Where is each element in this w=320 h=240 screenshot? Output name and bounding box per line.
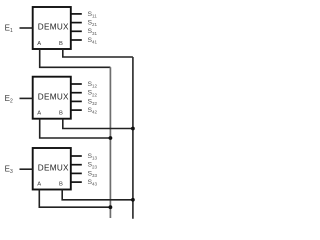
svg-text:B: B: [59, 111, 63, 117]
wire U3 pin B to bus B: [62, 190, 133, 200]
junction A2: [109, 136, 113, 140]
wire U3 output stub S43: [71, 181, 82, 183]
junction B2: [131, 127, 135, 131]
wire E2 input: [20, 97, 33, 99]
svg-text:DEMUX: DEMUX: [38, 164, 69, 173]
wire U2 output stub S42: [71, 109, 82, 111]
demux U1: [33, 7, 71, 49]
wire bus B vertical: [132, 57, 134, 219]
svg-text:B: B: [59, 181, 63, 187]
junction B3: [131, 198, 135, 202]
junction A3: [109, 205, 113, 209]
svg-text:DEMUX: DEMUX: [38, 92, 69, 101]
svg-text:A: A: [37, 181, 41, 187]
svg-text:DEMUX: DEMUX: [38, 23, 69, 32]
demux U2: [33, 77, 71, 119]
demux U3: [33, 148, 71, 190]
wire U1 output stub S11: [71, 13, 82, 15]
wire U3 output stub S23: [71, 164, 82, 166]
wire U3 pin A to bus A: [39, 190, 110, 208]
wire U1 pin B to bus B: [63, 49, 133, 57]
wire U1 output stub S21: [71, 22, 82, 24]
svg-text:A: A: [37, 41, 41, 47]
wire U2 output stub S12: [71, 83, 82, 85]
wire U2 output stub S32: [71, 100, 82, 102]
svg-text:B: B: [59, 41, 63, 47]
wire E3 input: [20, 168, 33, 170]
wire E1 input: [20, 27, 33, 29]
wire bus A vertical: [109, 67, 111, 218]
wire U1 pin A to bus A: [40, 49, 111, 67]
wire U3 output stub S13: [71, 155, 82, 157]
wire U1 output stub S41: [71, 39, 82, 41]
wire U1 output stub S31: [71, 30, 82, 32]
wire U2 pin A to bus A: [40, 119, 111, 138]
svg-text:A: A: [37, 111, 41, 117]
wire U3 output stub S33: [71, 172, 82, 174]
wire U2 pin B to bus B: [63, 119, 133, 129]
wire U2 output stub S22: [71, 92, 82, 94]
